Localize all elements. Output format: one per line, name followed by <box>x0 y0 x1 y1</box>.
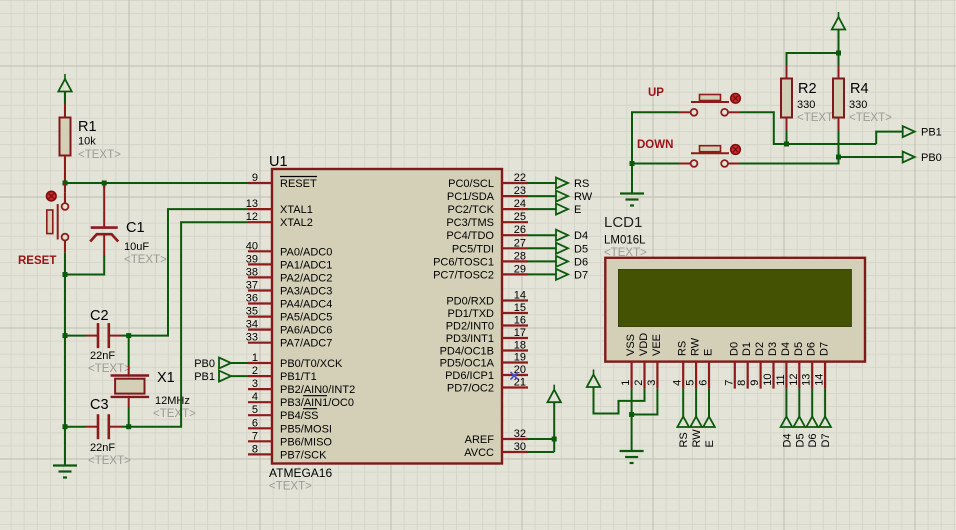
U1 pin 7 PB6/MISO <box>248 430 332 448</box>
svg-text:RW: RW <box>691 429 703 448</box>
wire C3 row to XTAL2 <box>129 222 248 427</box>
U1 pin 16 PD2/INT0 <box>446 315 528 333</box>
svg-text:D4: D4 <box>781 433 793 447</box>
U1 pin 24 PC2/TCK <box>448 198 528 216</box>
label R2 value 330 <box>797 81 840 124</box>
svg-text:36: 36 <box>246 293 258 305</box>
svg-text:9: 9 <box>749 380 761 386</box>
svg-text:PA7/ADC7: PA7/ADC7 <box>280 338 332 350</box>
svg-text:PC1/SDA: PC1/SDA <box>447 191 495 203</box>
svg-text:24: 24 <box>514 198 526 210</box>
svg-text:PB3/AIN1/OC0: PB3/AIN1/OC0 <box>280 397 354 409</box>
power terminal VCC above R1 <box>58 74 71 92</box>
svg-text:PC2/TCK: PC2/TCK <box>448 204 495 216</box>
svg-text:VDD: VDD <box>638 333 650 356</box>
svg-text:PD4/OC1B: PD4/OC1B <box>440 346 494 358</box>
svg-text:330: 330 <box>849 99 867 111</box>
svg-text:XTAL2: XTAL2 <box>280 217 313 229</box>
capacitor C2 22nF <box>65 323 129 348</box>
svg-text:LCD1: LCD1 <box>604 214 642 231</box>
U1 pin 40 PA0/ADC0 <box>246 240 333 258</box>
svg-text:<TEXT>: <TEXT> <box>88 363 131 375</box>
node junction R4 bottom <box>836 155 841 160</box>
U1 pin 6 PB5/MOSI <box>248 417 332 435</box>
terminal D4 <box>528 230 588 243</box>
svg-text:E: E <box>703 349 715 356</box>
svg-text:D4: D4 <box>780 342 792 356</box>
svg-text:RS: RS <box>678 432 690 447</box>
node junction C3 left <box>63 424 68 429</box>
label ATMEGA16 <box>269 466 332 493</box>
svg-text:PB1: PB1 <box>921 127 942 139</box>
svg-text:11: 11 <box>775 374 787 385</box>
svg-text:21: 21 <box>514 377 526 389</box>
label RESET <box>18 255 56 267</box>
label R1 value 10k <box>78 119 121 161</box>
svg-text:D4: D4 <box>574 230 588 242</box>
svg-text:14: 14 <box>814 374 826 386</box>
svg-text:19: 19 <box>514 352 526 364</box>
svg-text:9: 9 <box>252 172 258 184</box>
svg-text:PD6/ICP1: PD6/ICP1 <box>445 370 494 382</box>
svg-text:PD7/OC2: PD7/OC2 <box>447 383 494 395</box>
wire AVCC <box>528 402 554 453</box>
capacitor C3 22nF <box>65 414 129 439</box>
terminal E LCD <box>703 389 716 448</box>
svg-text:E: E <box>704 440 716 447</box>
svg-text:D5: D5 <box>794 433 806 447</box>
svg-text:32: 32 <box>514 428 526 440</box>
svg-text:PA5/ADC5: PA5/ADC5 <box>280 312 332 324</box>
wire UP button to PB1 <box>740 112 903 144</box>
svg-text:D7: D7 <box>820 433 832 447</box>
svg-text:23: 23 <box>514 185 526 197</box>
svg-text:5: 5 <box>685 380 697 386</box>
LCD1 pin 10 D3 <box>762 342 779 389</box>
svg-text:XTAL1: XTAL1 <box>280 204 313 216</box>
U1 pin 39 PA1/ADC1 <box>246 253 333 271</box>
wire VCC to R1 <box>64 92 66 118</box>
svg-text:LM016L: LM016L <box>604 235 646 247</box>
U1 pin 9 RESET <box>248 172 317 190</box>
label U1 <box>269 154 288 170</box>
power terminal VCC LCD <box>587 370 600 388</box>
svg-text:14: 14 <box>514 290 526 302</box>
svg-text:PB7/SCK: PB7/SCK <box>280 449 327 461</box>
wire RESET button to bottom node <box>64 252 66 274</box>
U1 pin 1 PB0/T0/XCK <box>248 352 343 370</box>
node junction C1 bottom <box>63 272 68 277</box>
svg-text:4: 4 <box>252 391 258 403</box>
LCD1 pin 8 D1 <box>736 342 753 389</box>
U1 pin 15 PD1/TXD <box>448 302 528 320</box>
ground GND2 buttons <box>620 194 644 206</box>
svg-text:D7: D7 <box>819 342 831 356</box>
U1 pin 27 PC5/TDI <box>452 237 528 255</box>
svg-text:13: 13 <box>246 198 258 210</box>
svg-text:2: 2 <box>252 365 258 377</box>
U1 pin 32 AREF <box>465 428 528 446</box>
terminal PB0 into U1 <box>194 358 248 371</box>
terminal D5 <box>528 243 588 256</box>
terminal D6 <box>528 256 588 269</box>
svg-text:2: 2 <box>633 380 645 386</box>
push button DOWN <box>679 145 740 167</box>
svg-text:C2: C2 <box>90 308 109 324</box>
svg-text:U1: U1 <box>269 154 288 170</box>
terminal PB1 into U1 <box>194 371 248 384</box>
svg-text:6: 6 <box>252 417 258 429</box>
label X1 value 12MHz <box>153 370 196 420</box>
U1 pin 4 PB3/AIN1/OC0 <box>248 391 354 409</box>
svg-text:8: 8 <box>252 443 258 455</box>
svg-text:12: 12 <box>788 374 800 386</box>
svg-text:34: 34 <box>246 319 258 331</box>
svg-text:17: 17 <box>514 327 526 339</box>
wire DOWN button to PB0 <box>740 157 903 164</box>
svg-text:<TEXT>: <TEXT> <box>78 149 121 161</box>
svg-text:D7: D7 <box>574 269 588 281</box>
LCD1 pin 12 D5 <box>788 342 805 389</box>
svg-text:D5: D5 <box>574 243 588 255</box>
LCD1 pin 2 VDD <box>633 333 650 389</box>
U1 pin 25 PC3/TMS <box>446 211 528 229</box>
U1 pin 37 PA3/ADC3 <box>246 280 333 298</box>
label R4 value 330 <box>849 81 892 124</box>
U1 pin 20 PD6/ICP1 <box>445 364 528 382</box>
svg-text:16: 16 <box>514 315 526 327</box>
svg-text:35: 35 <box>246 306 258 318</box>
ground GND3 LCD <box>620 451 644 463</box>
svg-text:C3: C3 <box>90 397 109 413</box>
U1 pin 2 PB1/T1 <box>248 365 317 383</box>
svg-text:X1: X1 <box>157 370 175 386</box>
svg-text:7: 7 <box>723 380 735 386</box>
svg-text:22: 22 <box>514 172 526 184</box>
terminal D7 LCD <box>819 389 832 448</box>
terminal D4 LCD <box>781 389 794 448</box>
svg-text:5: 5 <box>252 404 258 416</box>
wire VCC stem <box>838 30 840 66</box>
crystal X1 12MHz <box>111 336 150 427</box>
U1 pin 21 PD7/OC2 <box>447 377 528 395</box>
svg-text:PC3/TMS: PC3/TMS <box>446 217 494 229</box>
svg-text:RESET: RESET <box>18 255 56 267</box>
svg-text:AREF: AREF <box>465 434 495 446</box>
svg-text:ATMEGA16: ATMEGA16 <box>269 466 332 480</box>
svg-text:39: 39 <box>246 253 258 265</box>
svg-text:1: 1 <box>620 380 632 386</box>
svg-text:PB5/MOSI: PB5/MOSI <box>280 423 332 435</box>
U1 pin 29 PC7/TOSC2 <box>433 263 528 281</box>
terminal RW <box>528 191 593 204</box>
svg-text:PA4/ADC4: PA4/ADC4 <box>280 299 332 311</box>
svg-text:D3: D3 <box>767 342 779 356</box>
power terminal VCC for AVCC <box>548 385 561 403</box>
svg-text:RW: RW <box>574 191 593 203</box>
wire RESET net to U1 pin 9 <box>65 182 248 184</box>
LCD1 pin 11 D4 <box>775 342 792 389</box>
svg-text:33: 33 <box>246 332 258 344</box>
svg-text:R1: R1 <box>78 119 97 135</box>
op IC U1 ATMEGA16 body <box>272 169 502 464</box>
U1 pin 38 PA2/ADC2 <box>246 266 333 284</box>
svg-text:PC7/TOSC2: PC7/TOSC2 <box>433 269 494 281</box>
terminal PB0 <box>903 152 942 165</box>
capacitor C1 10uF <box>65 183 118 275</box>
U1 pin 5 PB4/SS <box>248 404 319 422</box>
terminal D5 LCD <box>794 389 807 448</box>
svg-text:PB1/T1: PB1/T1 <box>280 371 317 383</box>
svg-text:PC6/TOSC1: PC6/TOSC1 <box>433 256 494 268</box>
wire VCC to R2 <box>787 53 839 79</box>
svg-text:38: 38 <box>246 266 258 278</box>
U1 pin 36 PA4/ADC4 <box>246 293 333 311</box>
svg-text:DOWN: DOWN <box>637 139 673 151</box>
power terminal VCC top right <box>832 12 845 30</box>
svg-text:AVCC: AVCC <box>464 447 494 459</box>
svg-text:26: 26 <box>514 224 526 236</box>
wire LCD VSS to ground <box>631 389 633 451</box>
svg-text:7: 7 <box>252 430 258 442</box>
node junction VCC R2/R4 <box>836 51 841 56</box>
U1 pin 23 PC1/SDA <box>447 185 528 203</box>
LCD1 pin 1 VSS <box>620 334 637 389</box>
svg-text:PC4/TDO: PC4/TDO <box>446 230 494 242</box>
svg-text:10k: 10k <box>78 136 96 148</box>
svg-text:D5: D5 <box>793 342 805 356</box>
svg-text:330: 330 <box>797 99 815 111</box>
svg-text:PA6/ADC6: PA6/ADC6 <box>280 325 332 337</box>
svg-text:22nF: 22nF <box>90 442 115 454</box>
push button UP <box>679 94 740 116</box>
svg-text:E: E <box>574 204 581 216</box>
wire LCD VEE <box>632 389 658 415</box>
resistor R1 <box>60 118 71 184</box>
svg-text:PB0: PB0 <box>921 152 942 164</box>
label DOWN <box>637 139 673 151</box>
svg-text:D6: D6 <box>806 342 818 356</box>
svg-text:PC5/TDI: PC5/TDI <box>452 243 494 255</box>
label LCD1 LM016L <box>604 214 647 259</box>
display LCD1 screen <box>619 270 852 327</box>
ground GND1 <box>53 466 77 478</box>
marker at pin 20 <box>511 372 519 380</box>
svg-text:<TEXT>: <TEXT> <box>88 455 131 467</box>
U1 pin 35 PA5/ADC5 <box>246 306 333 324</box>
terminal RS LCD <box>677 389 690 448</box>
terminal D7 <box>528 269 588 282</box>
svg-text:D6: D6 <box>574 256 588 268</box>
label C3 value 22nF <box>88 397 131 467</box>
svg-text:18: 18 <box>514 340 526 352</box>
U1 pin 26 PC4/TDO <box>446 224 528 242</box>
svg-text:6: 6 <box>698 380 710 386</box>
wire main vertical left rail <box>64 275 66 466</box>
display LCD1 body <box>605 258 865 362</box>
svg-text:<TEXT>: <TEXT> <box>124 254 167 266</box>
svg-text:<TEXT>: <TEXT> <box>153 408 196 420</box>
node junction AREF/AVCC <box>552 437 557 442</box>
node junction R1/RESET row <box>63 181 68 186</box>
U1 pin 33 PA7/ADC7 <box>246 332 333 350</box>
svg-text:PD5/OC1A: PD5/OC1A <box>440 358 495 370</box>
svg-text:R2: R2 <box>798 81 817 97</box>
node junction C1 top <box>102 181 107 186</box>
U1 pin 34 PA6/ADC6 <box>246 319 333 337</box>
svg-text:PA2/ADC2: PA2/ADC2 <box>280 272 332 284</box>
svg-text:PB0/T0/XCK: PB0/T0/XCK <box>280 358 343 370</box>
svg-text:3: 3 <box>646 380 658 386</box>
svg-text:PA0/ADC0: PA0/ADC0 <box>280 246 332 258</box>
wire C2 row to XTAL1 <box>129 209 248 336</box>
U1 pin 13 XTAL1 <box>246 198 313 216</box>
U1 pin 3 PB2/AIN0/INT2 <box>248 378 355 396</box>
svg-text:D2: D2 <box>754 342 766 356</box>
svg-text:8: 8 <box>736 380 748 386</box>
svg-text:10uF: 10uF <box>124 241 149 253</box>
node junction C2 left <box>63 333 68 338</box>
svg-text:VEE: VEE <box>651 334 663 356</box>
svg-text:1: 1 <box>252 352 258 364</box>
svg-text:40: 40 <box>246 240 258 252</box>
LCD1 pin 4 RS <box>672 341 689 389</box>
svg-text:4: 4 <box>672 380 684 386</box>
svg-text:3: 3 <box>252 378 258 390</box>
U1 pin 12 XTAL2 <box>246 211 313 229</box>
svg-text:D0: D0 <box>728 342 740 356</box>
resistor R2 330 <box>781 79 792 145</box>
svg-text:PD2/INT0: PD2/INT0 <box>446 321 494 333</box>
label UP <box>648 87 664 99</box>
svg-text:RESET: RESET <box>280 178 317 190</box>
svg-text:22nF: 22nF <box>90 350 115 362</box>
terminal RW LCD <box>690 389 703 448</box>
LCD1 pin 7 D0 <box>723 342 740 389</box>
U1 pin 8 PB7/SCK <box>248 443 327 461</box>
label C1 value 10uF <box>124 220 167 266</box>
wire LCD VDD to power <box>594 387 645 414</box>
terminal RS <box>528 178 589 191</box>
U1 pin 30 AVCC <box>464 441 528 459</box>
wire AREF <box>528 438 554 440</box>
LCD1 pin 13 D6 <box>801 342 818 389</box>
svg-text:C1: C1 <box>126 220 145 236</box>
svg-text:PA1/ADC1: PA1/ADC1 <box>280 259 332 271</box>
svg-text:30: 30 <box>514 441 526 453</box>
svg-text:PB6/MISO: PB6/MISO <box>280 436 332 448</box>
LCD1 pin 5 RW <box>685 337 702 388</box>
node junction crystal top <box>126 333 131 338</box>
svg-text:RS: RS <box>677 341 689 356</box>
U1 pin 19 PD5/OC1A <box>440 352 528 370</box>
U1 pin 14 PD0/RXD <box>446 290 528 308</box>
svg-text:PA3/ADC3: PA3/ADC3 <box>280 286 332 298</box>
label C2 value 22nF <box>88 308 131 375</box>
svg-text:<TEXT>: <TEXT> <box>269 481 312 493</box>
svg-text:D6: D6 <box>807 433 819 447</box>
svg-text:12: 12 <box>246 211 258 223</box>
svg-text:10: 10 <box>762 374 774 386</box>
U1 pin 17 PD3/INT1 <box>446 327 528 345</box>
node junction DOWN row <box>630 161 635 166</box>
svg-text:37: 37 <box>246 280 258 292</box>
push button RESET switch <box>47 183 69 252</box>
svg-text:UP: UP <box>648 87 664 99</box>
U1 pin 22 PC0/SCL <box>448 172 528 190</box>
wire buttons left rail to ground <box>632 112 679 193</box>
svg-text:PB1: PB1 <box>194 371 215 383</box>
svg-text:25: 25 <box>514 211 526 223</box>
node junction R2 bottom <box>784 142 789 147</box>
svg-text:PD0/RXD: PD0/RXD <box>446 296 494 308</box>
terminal PB1 <box>903 126 942 139</box>
LCD1 pin 6 E <box>698 349 715 389</box>
svg-text:13: 13 <box>801 374 813 386</box>
svg-text:PD1/TXD: PD1/TXD <box>448 308 495 320</box>
svg-text:PB0: PB0 <box>194 358 215 370</box>
svg-text:D1: D1 <box>741 342 753 356</box>
svg-text:PB4/SS: PB4/SS <box>280 410 319 422</box>
svg-text:29: 29 <box>514 263 526 275</box>
svg-text:PB2/AIN0/INT2: PB2/AIN0/INT2 <box>280 384 355 396</box>
svg-text:PC0/SCL: PC0/SCL <box>448 178 494 190</box>
svg-text:15: 15 <box>514 302 526 314</box>
svg-text:12MHz: 12MHz <box>155 395 190 407</box>
node junction VSS/VEE <box>629 412 634 417</box>
node junction crystal bottom <box>126 424 131 429</box>
LCD1 pin 14 D7 <box>814 342 831 389</box>
U1 pin 18 PD4/OC1B <box>440 340 528 358</box>
LCD1 pin 3 VEE <box>646 334 663 389</box>
terminal E <box>528 204 581 217</box>
svg-text:RW: RW <box>690 337 702 356</box>
svg-text:<TEXT>: <TEXT> <box>849 112 892 124</box>
resistor R4 330 <box>833 66 844 158</box>
svg-text:VSS: VSS <box>625 334 637 356</box>
svg-text:27: 27 <box>514 237 526 249</box>
LCD1 pin 9 D2 <box>749 342 766 389</box>
terminal D6 LCD <box>806 389 819 448</box>
svg-text:RS: RS <box>574 178 589 190</box>
svg-text:28: 28 <box>514 250 526 262</box>
svg-text:PD3/INT1: PD3/INT1 <box>446 333 494 345</box>
U1 pin 28 PC6/TOSC1 <box>433 250 528 268</box>
svg-text:R4: R4 <box>850 81 869 97</box>
